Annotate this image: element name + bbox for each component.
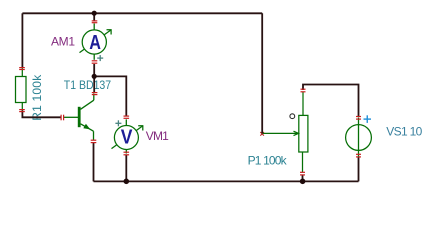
svg-text:P1 100k: P1 100k xyxy=(248,154,288,168)
pin VS1 bottom xyxy=(356,153,361,155)
wire junction to voltmeter top xyxy=(94,76,126,115)
pin VS1 top xyxy=(356,116,361,118)
pin VM1 top xyxy=(124,115,130,117)
pin AM1 bottom xyxy=(92,60,98,62)
pin R1 bottom xyxy=(19,109,25,111)
wire voltmeter bottom to rail xyxy=(125,155,127,182)
potentiometer tap circle xyxy=(290,114,295,119)
junction node at top rail xyxy=(92,11,97,16)
svg-text:V: V xyxy=(121,127,133,149)
pin R1 top xyxy=(19,67,25,69)
svg-text:AM1: AM1 xyxy=(51,35,75,49)
svg-text:A: A xyxy=(89,32,101,54)
svg-text:R1 100k: R1 100k xyxy=(30,74,44,121)
junction node collector/voltmeter xyxy=(92,74,97,79)
junction node P1 bottom rail xyxy=(300,179,306,185)
wire R1 bottom to transistor base xyxy=(22,111,60,118)
pin T1 collector xyxy=(92,92,98,94)
wire P1 top link to VS1 xyxy=(303,85,359,117)
wire ammeter bottom to collector junction xyxy=(93,64,95,92)
pin P1 bottom xyxy=(300,171,305,173)
pin T1 base xyxy=(60,115,62,121)
pin P1 top xyxy=(301,88,306,90)
pin VM1 bottom xyxy=(124,151,130,153)
pin marks (red) xyxy=(19,21,361,175)
voltage source VS1 xyxy=(346,115,372,157)
ammeter AM1 xyxy=(80,24,112,62)
wire rail to ammeter top xyxy=(93,13,95,20)
wire top rail xyxy=(22,12,262,14)
wire VS1 bottom to rail xyxy=(358,157,360,181)
voltmeter VM1 xyxy=(112,119,144,153)
potentiometer P1 xyxy=(263,92,308,173)
transistor emitter arrow xyxy=(83,124,90,130)
pin T1 emitter xyxy=(91,139,97,141)
junction node voltmeter bottom rail xyxy=(124,179,130,185)
pin AM1 top xyxy=(92,20,98,22)
pin P1 wiper xyxy=(260,132,264,136)
svg-text:T1 BD137: T1 BD137 xyxy=(64,78,112,92)
resistor R1 xyxy=(16,68,27,111)
wire emitter drop xyxy=(93,143,95,182)
wire left drop to R1 xyxy=(21,13,23,68)
wire P1 bottom to rail xyxy=(302,175,304,181)
wire right drop to wiper xyxy=(261,13,263,133)
svg-text:VS1 10: VS1 10 xyxy=(386,125,422,139)
transistor Q1 T1 xyxy=(63,94,94,141)
wire bottom rail xyxy=(94,180,359,182)
svg-text:VM1: VM1 xyxy=(146,129,169,143)
